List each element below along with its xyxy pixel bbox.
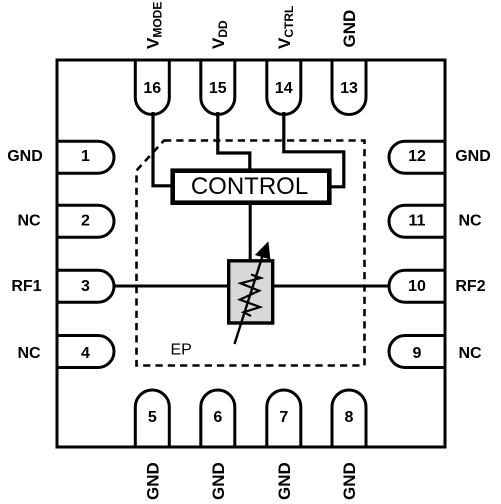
pin 10 bbox=[389, 270, 444, 302]
svg-text:10: 10 bbox=[408, 278, 426, 295]
svg-text:GND: GND bbox=[275, 462, 294, 500]
EP exposed pad dashed outline bbox=[137, 141, 365, 366]
CONTROL box U1 bbox=[173, 171, 330, 203]
wire pin15 to CONTROL bbox=[218, 112, 250, 171]
pin 13 bbox=[332, 62, 366, 115]
svg-text:6: 6 bbox=[213, 409, 222, 426]
svg-text:NC: NC bbox=[17, 345, 41, 362]
pin 8 bbox=[332, 390, 366, 446]
svg-text:GND: GND bbox=[340, 462, 359, 500]
pin 5 bbox=[135, 390, 169, 446]
pin 2 bbox=[59, 205, 115, 237]
svg-text:16: 16 bbox=[143, 80, 161, 97]
svg-text:RF2: RF2 bbox=[455, 278, 485, 295]
attenuator arrow line bbox=[235, 256, 263, 344]
svg-text:GND: GND bbox=[144, 462, 163, 500]
svg-text:1: 1 bbox=[81, 148, 90, 165]
svg-text:12: 12 bbox=[408, 148, 426, 165]
pin 3 bbox=[59, 270, 115, 302]
bottom label GND pin5 bbox=[144, 462, 163, 500]
bottom label GND pin6 bbox=[209, 462, 228, 500]
pin 7 bbox=[267, 390, 301, 446]
svg-text:7: 7 bbox=[279, 409, 288, 426]
package outline bbox=[57, 60, 445, 447]
attenuator arrowhead bbox=[256, 243, 270, 259]
svg-text:3: 3 bbox=[81, 278, 90, 295]
bottom label GND pin7 bbox=[275, 462, 294, 500]
pin 11 bbox=[389, 205, 444, 237]
pin 9 bbox=[389, 336, 444, 368]
svg-text:GND: GND bbox=[340, 10, 359, 48]
pin 16 bbox=[135, 62, 169, 115]
attenuator box bbox=[229, 261, 273, 323]
svg-text:GND: GND bbox=[209, 462, 228, 500]
svg-text:NC: NC bbox=[17, 212, 41, 229]
wire CONTROL to attenuator bbox=[249, 202, 252, 262]
svg-text:8: 8 bbox=[345, 409, 354, 426]
attenuator resistor zigzag bbox=[240, 275, 261, 317]
svg-text:13: 13 bbox=[340, 80, 358, 97]
pin 6 bbox=[201, 390, 235, 446]
bottom label GND pin8 bbox=[340, 462, 359, 500]
wire pin14 to CONTROL bbox=[284, 112, 344, 187]
svg-text:11: 11 bbox=[409, 212, 426, 229]
top label VCTRL pin14 bbox=[275, 6, 296, 49]
svg-text:2: 2 bbox=[81, 212, 90, 229]
svg-text:4: 4 bbox=[81, 345, 90, 362]
svg-text:NC: NC bbox=[458, 212, 482, 229]
svg-text:5: 5 bbox=[148, 409, 157, 426]
svg-text:GND: GND bbox=[7, 148, 43, 165]
svg-text:RF1: RF1 bbox=[11, 278, 41, 295]
svg-text:EP: EP bbox=[171, 342, 192, 359]
pin 15 bbox=[201, 62, 235, 115]
svg-text:9: 9 bbox=[413, 345, 422, 362]
pin 14 bbox=[267, 62, 301, 115]
pin 1 bbox=[59, 141, 115, 173]
top label VDD pin15 bbox=[209, 20, 230, 49]
svg-text:15: 15 bbox=[209, 80, 227, 97]
wire pin16 to CONTROL bbox=[153, 112, 173, 186]
svg-text:NC: NC bbox=[458, 345, 482, 362]
top label VMODE pin16 bbox=[144, 2, 165, 49]
wire RF1 to RF2 bbox=[113, 285, 390, 288]
svg-text:14: 14 bbox=[275, 80, 293, 97]
pin 4 bbox=[59, 336, 115, 368]
pin 12 bbox=[389, 141, 444, 173]
top label GND pin13 bbox=[340, 10, 359, 48]
svg-text:CONTROL: CONTROL bbox=[191, 173, 308, 200]
svg-text:GND: GND bbox=[455, 148, 491, 165]
